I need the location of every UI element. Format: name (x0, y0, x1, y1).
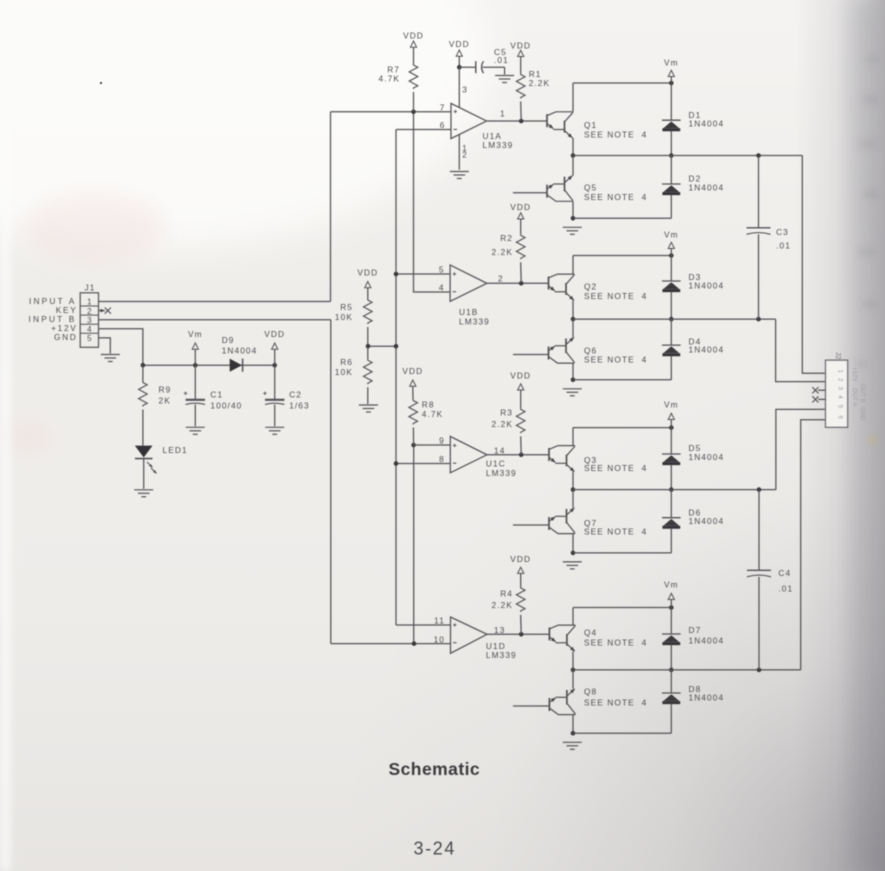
wire ground row (573, 217, 671, 219)
svg-text:R6: R6 (340, 357, 353, 367)
transistor Q5 (darlington) (547, 176, 573, 202)
no-connect X on J1 pin 2 (101, 309, 105, 313)
wire no-connect stub pin3 (818, 389, 826, 391)
wire U1A output to Q1 base (487, 120, 548, 122)
svg-text:VDD: VDD (264, 329, 285, 339)
svg-text:2.2K: 2.2K (529, 78, 550, 88)
diode D1 1N4004 (662, 120, 681, 130)
label R8 4.7K (422, 399, 443, 418)
wire net REF to U1B pin5 (396, 273, 450, 275)
op-amp comparator U1D LM339 (451, 617, 488, 653)
wire net INPUT-A branch to U1B pin4 (414, 112, 451, 292)
ground below R6 (359, 405, 378, 412)
label D8 1N4004 (689, 684, 725, 703)
wire Vm arrow stub (670, 420, 672, 428)
wire U1D output to Q4 base (487, 633, 549, 635)
svg-text:SEE NOTE 4: SEE NOTE 4 (584, 291, 647, 301)
label Q6 SEE NOTE 4 (584, 346, 647, 365)
wire net INPUT-A from J1 pin1 (99, 301, 331, 303)
svg-text:SEE NOTE 4: SEE NOTE 4 (584, 354, 647, 364)
wire Q4 collector up (572, 608, 574, 626)
wire C3 column upper (758, 156, 760, 228)
junction output node U1C channel (571, 487, 576, 492)
wire output node down to Q8 (572, 670, 574, 689)
svg-text:4: 4 (837, 395, 844, 399)
junction channel2 row / C3 (756, 317, 761, 322)
wire R9 to LED1 (142, 410, 144, 446)
wire Q2 emitter down to output node (572, 300, 574, 319)
power Vm above C1 (188, 329, 203, 349)
wire R3 to U1C output (520, 436, 523, 455)
power VDD above R1 (510, 40, 531, 56)
svg-text:LM339: LM339 (483, 140, 514, 150)
label D1 1N4004 (689, 110, 725, 129)
wire D7 to output row (670, 645, 672, 670)
wire channel3 to connector P1 pin5 (776, 409, 826, 489)
svg-text:Q2: Q2 (584, 282, 597, 292)
wire net INPUT-B branch up to U1C pin9 (413, 445, 415, 644)
wire net REF to U1D pin11 (396, 624, 451, 626)
wire R1 to U1A output (520, 102, 523, 122)
wire output node down to Q6 (572, 319, 574, 337)
svg-text:LM339: LM339 (459, 316, 490, 326)
wire Vm row (573, 82, 671, 84)
connector P1 signal names (rotated) (851, 367, 866, 421)
label C4 .01 (778, 568, 793, 593)
svg-text:Q4: Q4 (584, 628, 597, 638)
op-amp comparator U1B LM339 (450, 265, 487, 301)
svg-text:SEE NOTE 4: SEE NOTE 4 (584, 698, 647, 708)
wire output row to D8 (670, 670, 672, 693)
transistor Q4 (darlington) (549, 625, 575, 651)
svg-text:10: 10 (434, 634, 445, 644)
diode D8 1N4004 (662, 693, 681, 703)
ground of channel U1C (563, 562, 582, 569)
wire VDD to rail (274, 349, 276, 365)
svg-text:.01: .01 (778, 583, 793, 593)
wire Vm to D7 (670, 608, 672, 635)
svg-text:5: 5 (837, 405, 844, 409)
wire Q8 base lead (513, 705, 549, 707)
junction output node U1A channel (571, 153, 576, 158)
junction INPUT-B / U1D pin10 (412, 641, 417, 646)
wire net INPUT-B falling bus (330, 320, 332, 644)
resistor R4 (516, 587, 525, 612)
wire Q1 emitter down to output node (572, 138, 574, 156)
power Vm node (664, 58, 679, 77)
ground of channel U1B (563, 389, 582, 396)
wire C1 to ground (194, 405, 196, 427)
wire U1A pin12 to ground (458, 135, 460, 170)
wire pin3 node down to U1A pin3 (458, 67, 460, 108)
wire LED1 to ground (143, 459, 145, 489)
wire channel1 to connector P1 pin1 (802, 156, 825, 374)
label D6 1N4004 (689, 508, 725, 527)
junction ground row (571, 378, 576, 383)
wire output row to D2 (670, 156, 672, 185)
wire J1 pin4 +12V down (99, 329, 143, 365)
label D2 1N4004 (689, 174, 725, 193)
svg-text:6: 6 (440, 120, 446, 130)
svg-text:SEE NOTE 4: SEE NOTE 4 (584, 129, 647, 139)
label C3 .01 (776, 227, 791, 250)
wire net INPUT-A to U1A pin7 (331, 111, 452, 113)
wire R7 to INPUT-A row (413, 92, 415, 112)
diode D2 1N4004 (662, 184, 681, 194)
ground of channel U1A (563, 227, 582, 234)
wire J1 pin2 stub (99, 310, 105, 312)
junction REF / U1C pin8 (394, 461, 399, 466)
svg-text:4: 4 (439, 283, 445, 293)
label D4 1N4004 (689, 336, 725, 354)
wire channel4 to connector P1 pin6 (801, 420, 826, 670)
wire C4 column upper (758, 490, 760, 571)
svg-text:1N4004: 1N4004 (689, 183, 725, 193)
wire output row to D6 (670, 490, 672, 518)
svg-text:J2: J2 (834, 352, 841, 360)
no-connect X mark P1 pin4 (812, 396, 818, 402)
power VDD above R7 (403, 30, 424, 47)
wire net REF to U1A pin6 (396, 129, 451, 131)
wire no-connect stub pin4 (818, 398, 826, 400)
svg-text:.01: .01 (776, 240, 791, 250)
svg-text:OUT B: OUT B (859, 384, 866, 403)
svg-text:3: 3 (837, 387, 844, 391)
svg-text:Vm: Vm (664, 400, 679, 410)
svg-text:R5: R5 (340, 302, 353, 312)
svg-text:2: 2 (498, 273, 504, 283)
wire Q2 collector up (572, 256, 574, 275)
wire VDD to R5 (367, 288, 369, 299)
resistor R9 (139, 382, 148, 407)
ground of channel U1D (563, 742, 582, 749)
wire VDD to R2 (520, 219, 522, 234)
junction ground row (571, 551, 576, 556)
svg-text:2.2K: 2.2K (492, 600, 513, 610)
svg-text:100/40: 100/40 (210, 401, 242, 411)
power Vm node (664, 230, 679, 249)
wire Q8 collector to ground row (572, 715, 574, 734)
power VDD above R8 (402, 366, 423, 386)
svg-text:1N4004: 1N4004 (689, 693, 725, 703)
junction U1A output / R1 (519, 119, 524, 124)
op-amp comparator U1C LM339 (450, 436, 487, 472)
wire rail to C1 (194, 365, 196, 400)
svg-text:C4: C4 (778, 568, 791, 578)
junction channel3 row / C4 (757, 487, 762, 492)
transistor Q1 (darlington) (547, 112, 573, 138)
wire output row to D4 (670, 319, 672, 345)
svg-text:LM339: LM339 (486, 468, 517, 478)
wire Vm row (573, 427, 671, 429)
label C1 100/40 (210, 389, 242, 410)
wire VDD to R8 (412, 386, 414, 399)
wire ground row (573, 552, 671, 554)
junction Vm / D3 (669, 253, 674, 258)
svg-text:8: 8 (439, 454, 445, 464)
pin number 12 of U1A (stacked) (462, 144, 468, 160)
label D9 1N4004 (222, 335, 258, 356)
wire Vm row (573, 255, 671, 257)
svg-text:1N4004: 1N4004 (689, 636, 725, 646)
junction ground row (571, 731, 576, 736)
svg-text:2: 2 (462, 151, 468, 160)
resistor R8 (409, 400, 418, 425)
wire VDD to R1 (520, 57, 522, 74)
wire Vm to rail (194, 349, 196, 365)
svg-text:C3: C3 (776, 227, 789, 237)
svg-text:Vm: Vm (664, 58, 679, 68)
capacitor C2 (263, 392, 284, 405)
svg-text:2.2K: 2.2K (492, 247, 513, 257)
svg-text:4: 4 (87, 325, 92, 334)
wire R5 to node (367, 327, 369, 346)
svg-text:Q8: Q8 (584, 687, 597, 697)
svg-text:3-24: 3-24 (414, 839, 456, 859)
label Q8 SEE NOTE 4 (584, 687, 647, 708)
junction pin3 node / C5 (457, 65, 462, 70)
diode D6 1N4004 (662, 518, 681, 528)
label D3 1N4004 (689, 272, 725, 291)
svg-text:LM339: LM339 (486, 650, 517, 660)
wire net REF bus (395, 130, 397, 626)
junction output node U1B channel (571, 317, 576, 322)
diode D9 (230, 359, 243, 372)
svg-text:.01: .01 (494, 55, 509, 65)
wire D8 to ground row (670, 704, 672, 734)
wire Q1 collector up (572, 83, 574, 112)
wire Q5 base lead (513, 192, 547, 194)
power VDD above R4 (510, 554, 531, 573)
junction Vm / D1 (669, 81, 674, 86)
ground at J1 pin5 (101, 355, 120, 362)
wire D4 to ground row (670, 356, 672, 380)
svg-text:1: 1 (837, 370, 844, 374)
svg-text:7: 7 (440, 103, 446, 113)
svg-text:11: 11 (434, 616, 445, 626)
label R7 4.7K (379, 64, 400, 83)
wire Vm to D1 (670, 83, 672, 120)
power VDD above R2 (510, 202, 531, 219)
junction rail / C2 / VDD (272, 363, 277, 368)
junction REF bus node (394, 344, 399, 349)
svg-text:2: 2 (837, 378, 844, 382)
svg-text:4.7K: 4.7K (422, 409, 443, 419)
svg-text:R9: R9 (159, 385, 172, 395)
svg-text:VDD: VDD (510, 202, 531, 212)
label R2 2.2K (492, 233, 513, 257)
transistor Q3 (darlington) (549, 446, 575, 472)
wire Q4 emitter down to output node (572, 651, 574, 670)
svg-text:2: 2 (87, 307, 92, 316)
wire channel2 to connector P1 pin2 (776, 319, 826, 382)
svg-text:SEE NOTE 4: SEE NOTE 4 (584, 192, 647, 202)
wire pin3 node to C5 (459, 66, 476, 68)
label U1A LM339 (483, 131, 514, 150)
svg-text:D9: D9 (222, 335, 235, 345)
resistor R6 (363, 359, 372, 384)
svg-text:14: 14 (494, 445, 505, 455)
connector P1 pin numbers (rotated) (837, 370, 844, 420)
wire C4 column lower (758, 577, 760, 670)
svg-text:VDD: VDD (449, 39, 470, 49)
svg-text:R4: R4 (500, 589, 513, 599)
svg-text:1/63: 1/63 (289, 401, 310, 411)
diode D7 1N4004 (662, 634, 681, 644)
junction INPUT-B / R8 / U1C pin9 (411, 443, 416, 448)
junction U1C output / R3 (519, 453, 524, 458)
ground below C1 (186, 427, 205, 434)
wire VDD to pin3 node (458, 56, 460, 67)
label U1C LM339 (486, 459, 517, 478)
label C2 1/63 (289, 389, 310, 410)
label R6 10K (335, 357, 353, 377)
svg-text:Vm: Vm (664, 580, 679, 590)
wire D1 to output row (670, 131, 672, 156)
svg-text:VDD: VDD (402, 366, 423, 376)
svg-text:3: 3 (462, 85, 468, 95)
connector P1 (output header) (826, 360, 848, 427)
svg-text:C2: C2 (289, 389, 302, 399)
junction output row / diode column (669, 668, 674, 673)
wire R6 to ground (367, 387, 369, 404)
svg-text:3: 3 (87, 316, 92, 325)
junction rail / R9 (141, 363, 146, 368)
svg-text:VDD: VDD (403, 30, 424, 40)
junction R5/R6 node (366, 344, 371, 349)
wire Q6 base lead (513, 354, 549, 356)
wire D5 to output row (670, 465, 672, 490)
junction output row / diode column (669, 317, 674, 322)
capacitor C5 (476, 61, 484, 73)
svg-text:Schematic: Schematic (389, 759, 481, 779)
ground below LED1 (134, 490, 153, 497)
resistor R1 (516, 74, 525, 99)
svg-text:Vm: Vm (664, 230, 679, 240)
wire R4 to U1D output (520, 615, 523, 634)
svg-text:6: 6 (837, 416, 844, 420)
label Q1 SEE NOTE 4 (584, 120, 647, 140)
svg-text:5: 5 (87, 334, 92, 343)
svg-text:9: 9 (439, 436, 445, 446)
svg-text:Q1: Q1 (584, 120, 597, 130)
power Vm node (664, 580, 679, 600)
capacitor C4 (747, 570, 771, 577)
svg-text:LED1: LED1 (163, 445, 188, 455)
wire VDD to R7 (413, 47, 415, 64)
resistor R3 (516, 408, 525, 433)
wire U1C output to Q3 base (487, 454, 549, 456)
junction Vm / D7 (669, 605, 674, 610)
junction Vm / D5 (669, 425, 674, 430)
label U1B LM339 (459, 307, 490, 326)
label D5 1N4004 (689, 443, 725, 462)
power VDD above U1A pin3 (449, 39, 470, 56)
label U1D LM339 (486, 641, 517, 660)
label R3 2.2K (492, 408, 513, 430)
junction output node U1D channel (571, 668, 576, 673)
no-connect X mark P1 pin3 (812, 387, 818, 393)
svg-text:1N4004: 1N4004 (689, 118, 725, 128)
svg-text:10K: 10K (335, 367, 353, 377)
svg-text:C1: C1 (210, 389, 223, 399)
wire rail to C2 (274, 365, 276, 400)
svg-text:1N4004: 1N4004 (689, 344, 725, 354)
wire Q6 collector to ground row (572, 363, 574, 380)
junction channel4 row / C4 (757, 668, 762, 673)
svg-text:R2: R2 (500, 233, 513, 243)
wire output node down to Q5 (572, 156, 574, 176)
svg-text:1: 1 (87, 298, 92, 307)
svg-text:SEE NOTE 4: SEE NOTE 4 (584, 526, 647, 536)
wire C5 to ground (483, 66, 505, 68)
power VDD above C2 (264, 329, 285, 349)
wire D2 to ground row (670, 195, 672, 219)
svg-text:GND: GND (54, 332, 78, 342)
diode D5 1N4004 (662, 454, 681, 464)
ground below C2 (265, 427, 284, 434)
wire Q7 collector to ground row (572, 534, 574, 553)
power VDD above R3 (510, 371, 531, 390)
wire REF node row (368, 345, 396, 347)
wire Vm row (573, 607, 671, 609)
label R1 2.2K (529, 69, 550, 88)
wire Vm to D5 (670, 428, 672, 454)
junction U1D output / R4 (519, 632, 524, 637)
wire channel2 output row (573, 318, 776, 320)
junction output row / diode column (669, 153, 674, 158)
wire channel3 output row (573, 489, 776, 491)
svg-text:SEE NOTE 4: SEE NOTE 4 (584, 638, 647, 648)
wire net INPUT-B to U1D pin10 (331, 643, 451, 645)
svg-text:1N4004: 1N4004 (689, 516, 725, 526)
wire ground row (573, 379, 671, 381)
diode D3 1N4004 (662, 281, 681, 291)
wire U1B output to Q2 base (487, 282, 549, 284)
wire channel1 output row (573, 155, 802, 157)
svg-text:2.2K: 2.2K (492, 419, 513, 429)
J1 pin numbers 1-5 (87, 298, 92, 343)
junction INPUT-A / R7 (411, 110, 416, 115)
wire net REF to U1C pin8 (396, 463, 450, 465)
wire rail to R9 (142, 365, 144, 381)
wire D6 to ground row (670, 528, 672, 553)
LED LED1 (135, 446, 157, 474)
label Q5 SEE NOTE 4 (584, 183, 647, 202)
svg-text:+12V: +12V (851, 367, 858, 382)
wire C3 column lower (758, 234, 760, 319)
op-amp comparator U1A LM339 (451, 103, 487, 138)
svg-text:VDD: VDD (510, 371, 531, 381)
transistor Q2 (darlington) (549, 274, 575, 300)
junction U1B output / R2 (519, 281, 524, 286)
svg-text:VDD: VDD (357, 267, 378, 277)
ground at C5 (495, 76, 514, 83)
label R5 10K (335, 302, 353, 322)
label Q2 SEE NOTE 4 (584, 282, 647, 302)
label Q3 SEE NOTE 4 (584, 455, 647, 473)
wire R8 to U1C pin9 node (412, 428, 414, 446)
junction REF / U1B pin5 (394, 272, 399, 277)
transistor Q7 (darlington) (549, 508, 575, 534)
diode D4 1N4004 (662, 345, 681, 355)
no-connect X mark pin2 (105, 308, 111, 314)
svg-text:4.7K: 4.7K (379, 73, 400, 83)
junction ground row (571, 216, 576, 221)
svg-text:2K: 2K (159, 396, 171, 406)
transistor Q6 (darlington) (549, 337, 575, 363)
wire Vm arrow stub (670, 77, 672, 84)
